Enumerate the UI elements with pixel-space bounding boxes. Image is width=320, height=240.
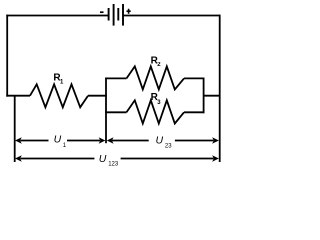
battery minus sign (100, 11, 104, 13)
wire top branch left (105, 77, 126, 79)
wire left vertical (6, 15, 8, 97)
arrowhead U123 right (212, 155, 219, 162)
wire box to right vertical (204, 95, 221, 97)
wire right vertical (also U23/U123 extension) (219, 15, 221, 162)
wire parallel box right edge (203, 78, 205, 114)
wire top left (to battery) (6, 15, 108, 17)
resistor R2 (127, 66, 185, 89)
battery plus sign (127, 9, 131, 14)
wire top right (from battery) (124, 15, 221, 17)
wire parallel box left edge (and U1/U23 extension below) (105, 78, 107, 144)
wire top branch right (184, 77, 205, 79)
svg-text:U: U (99, 153, 107, 165)
svg-text:U: U (156, 134, 164, 146)
dimension line U1 (20, 140, 100, 142)
dimension line U123 (20, 158, 214, 160)
wire bottom branch left (105, 111, 126, 113)
wire bottom branch right (184, 111, 205, 113)
dimension line U23 (112, 140, 214, 142)
battery B1 (100, 4, 131, 26)
battery plate tall (pos outer) (122, 4, 124, 26)
arrowhead U1 right (99, 137, 106, 144)
battery plate tall (pos) (113, 4, 115, 26)
resistor R3 (127, 100, 185, 123)
wire main left (to R1) (6, 95, 30, 97)
arrowhead U23 right (212, 137, 219, 144)
svg-text:123: 123 (108, 161, 119, 167)
extension line left (for U1/U123) (14, 97, 16, 163)
battery plate short (neg) (117, 8, 119, 21)
arrowhead U123 left (15, 155, 22, 162)
arrowhead U23 left (107, 137, 114, 144)
arrowhead U1 left (15, 137, 22, 144)
svg-text:23: 23 (165, 143, 172, 149)
wire R1 to parallel box (88, 95, 107, 97)
battery plate short (neg outer) (108, 8, 110, 21)
svg-text:U: U (54, 134, 62, 146)
resistor R1 (30, 84, 88, 107)
